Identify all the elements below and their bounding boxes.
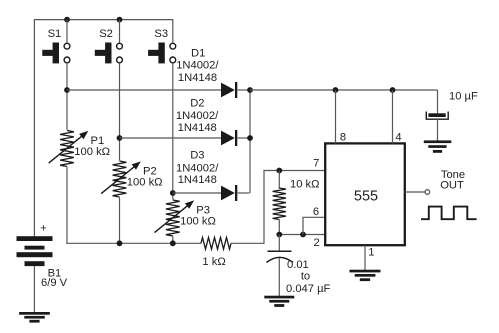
wire D2 anode line [120, 137, 223, 139]
svg-text:2: 2 [313, 237, 319, 249]
pushbutton S3 [148, 28, 176, 63]
wire S1 to P1 [66, 63, 68, 130]
wire P2 to bottom bus [119, 198, 121, 244]
wire bus to S2 [119, 20, 121, 43]
potentiometer P2 100 k [101, 161, 162, 197]
label pin 8 [340, 132, 346, 144]
svg-text:100 kΩ: 100 kΩ [127, 176, 163, 188]
label R2 value [290, 178, 320, 190]
svg-text:7: 7 [313, 157, 319, 169]
node P2 bus junction [117, 240, 123, 246]
svg-text:555: 555 [354, 189, 378, 205]
capacitor C1 10 uF [426, 90, 448, 141]
svg-text:S1: S1 [48, 28, 62, 40]
wire pin 7 line [263, 170, 325, 172]
wire pin 3 output [405, 190, 430, 195]
svg-text:100 kΩ: 100 kΩ [180, 215, 216, 227]
label Tone OUT [440, 169, 465, 191]
ground C1 [424, 140, 452, 152]
node pin 4 branch [390, 87, 396, 93]
pushbutton S2 [95, 28, 123, 63]
svg-text:6: 6 [313, 206, 319, 218]
diode D3 [221, 185, 237, 201]
label pin 4 [395, 132, 401, 144]
label battery polarity [40, 223, 47, 235]
wire P3 to bottom bus [172, 237, 174, 244]
battery B1 [17, 236, 53, 266]
node P3 bus junction [170, 240, 176, 246]
wire top supply bus [34, 19, 173, 21]
wire Vcc line to 555 and C1 [250, 89, 438, 91]
svg-text:1: 1 [368, 247, 374, 259]
wire R1 to pin 7 riser [231, 171, 264, 244]
diode D1 [221, 82, 237, 98]
svg-text:1 kΩ: 1 kΩ [202, 256, 225, 268]
node S1/D1 junction [64, 87, 70, 93]
potentiometer P3 100 k [155, 200, 216, 236]
wire pin 2 line [279, 234, 325, 236]
svg-text:1N4148: 1N4148 [178, 174, 217, 186]
label D2 value [176, 98, 219, 135]
node R2/C2 junction [276, 232, 282, 238]
wire pin 6 branch [302, 217, 325, 234]
wire battery to ground [33, 266, 35, 312]
wire pin 1 to ground [364, 245, 366, 270]
svg-text:6/9 V: 6/9 V [41, 277, 68, 289]
node pin 8 branch [333, 87, 339, 93]
wire diode cathode bus [237, 90, 251, 193]
node cathode bus / supply [247, 87, 253, 93]
square wave symbol [421, 207, 477, 220]
wire P1 to bottom bus [66, 167, 68, 243]
label D3 value [176, 150, 219, 187]
wire pin 4 riser [392, 90, 394, 143]
ground C2 [264, 296, 294, 307]
svg-text:1N4002/: 1N4002/ [176, 162, 219, 174]
label R1 value [202, 256, 225, 268]
wire S2 to P2 [119, 63, 121, 160]
node S3/D3 junction [170, 190, 176, 196]
resistor R2 10 k [273, 171, 286, 235]
svg-text:100 kΩ: 100 kΩ [74, 146, 110, 158]
potentiometer P1 100 k [49, 131, 110, 167]
wire D1 anode line [67, 89, 222, 91]
node S2 top junction [117, 17, 123, 23]
wire pin 8 riser [335, 90, 337, 143]
wire bus to S3 [172, 20, 174, 43]
label B1 value [41, 268, 68, 290]
svg-text:1N4148: 1N4148 [178, 122, 217, 134]
svg-text:8: 8 [340, 132, 346, 144]
diode D2 [221, 130, 237, 146]
op-amp U1 555 timer box [325, 143, 405, 245]
svg-text:to: to [301, 270, 310, 282]
svg-text:1N4148: 1N4148 [178, 72, 217, 84]
node S1 top junction [64, 17, 70, 23]
svg-text:4: 4 [395, 132, 401, 144]
pushbutton S1 [42, 28, 70, 63]
label pin 7 [313, 157, 319, 169]
svg-text:OUT: OUT [440, 179, 464, 191]
label pin 1 [368, 247, 374, 259]
wire bus to S1 [66, 20, 68, 43]
svg-text:D2: D2 [190, 98, 204, 110]
svg-text:0.01: 0.01 [287, 259, 309, 271]
node D2 cathode junction [247, 135, 253, 141]
label pin 2 [313, 237, 319, 249]
svg-text:D3: D3 [190, 150, 204, 162]
node pin 7 / R2 junction [276, 168, 282, 174]
wire left battery rail [33, 19, 35, 237]
label C2 value [286, 259, 331, 295]
label C1 value [449, 91, 478, 103]
svg-text:D1: D1 [191, 48, 205, 60]
wire S3 to P3 [172, 63, 174, 199]
wire D3 anode line [173, 192, 222, 194]
capacitor C2 0.01-0.047 uF [267, 235, 294, 297]
svg-text:10 µF: 10 µF [449, 91, 478, 103]
svg-text:10 kΩ: 10 kΩ [290, 178, 320, 190]
label D1 value [176, 48, 219, 85]
svg-text:+: + [40, 223, 47, 235]
wire bottom bus [66, 242, 201, 244]
label pin 6 [313, 206, 319, 218]
svg-text:1N4002/: 1N4002/ [176, 59, 219, 71]
ground battery [19, 312, 50, 323]
node S2/D2 junction [117, 135, 123, 141]
ground U1 pin 1 [350, 270, 381, 281]
svg-text:S3: S3 [154, 28, 168, 40]
resistor R1 1 k [201, 238, 231, 250]
svg-text:S2: S2 [99, 28, 113, 40]
svg-text:0.047 µF: 0.047 µF [286, 283, 331, 295]
svg-text:1N4002/: 1N4002/ [176, 110, 219, 122]
node pin 6 branch junction [300, 232, 306, 238]
